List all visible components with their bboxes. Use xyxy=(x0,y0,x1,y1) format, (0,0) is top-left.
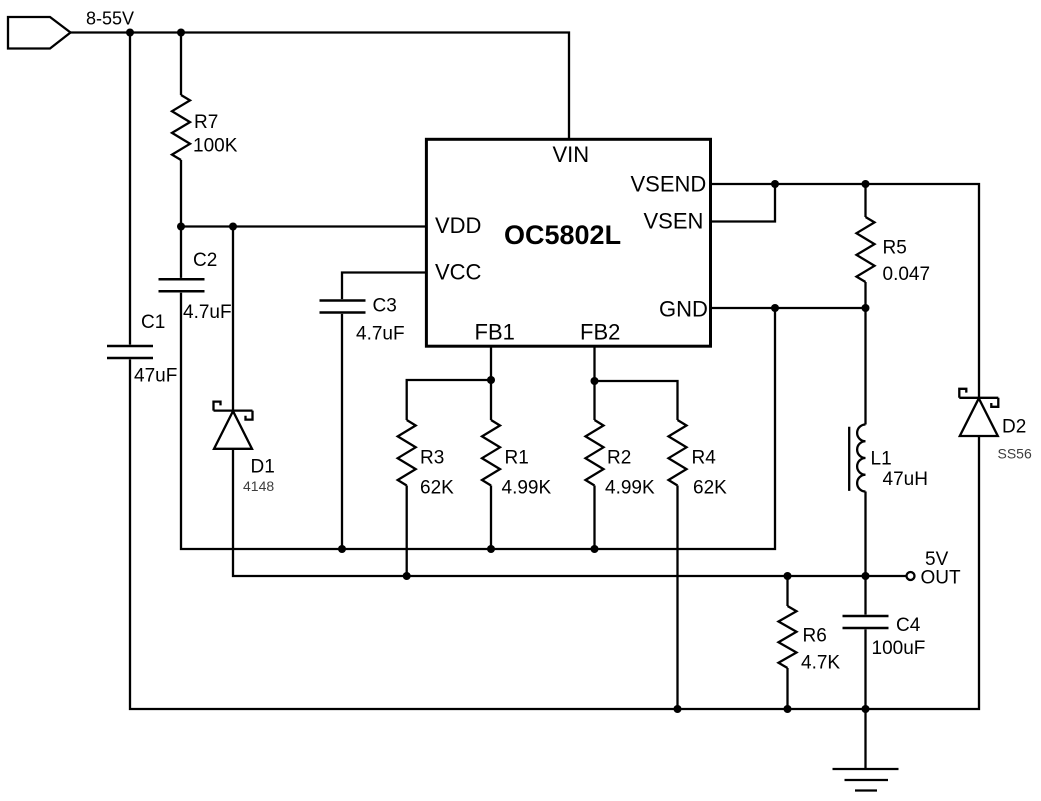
wire GND pin xyxy=(709,307,866,309)
input connector J1 xyxy=(8,17,71,49)
svg-text:47uH: 47uH xyxy=(883,469,928,490)
svg-text:0.047: 0.047 xyxy=(883,264,931,285)
svg-text:OUT: OUT xyxy=(921,568,962,589)
ground xyxy=(833,769,899,791)
svg-text:VSEN: VSEN xyxy=(644,209,704,234)
svg-text:62K: 62K xyxy=(420,478,454,499)
svg-text:R4: R4 xyxy=(692,448,717,469)
wire FB2 node to R4 xyxy=(595,381,678,420)
wire C2 to analog-ground bus A xyxy=(181,293,775,549)
wire C3 to bus A xyxy=(341,314,343,549)
zener diode D1 xyxy=(214,402,253,449)
resistor R1 xyxy=(482,420,500,486)
wire to ground xyxy=(864,709,866,769)
svg-text:D1: D1 xyxy=(251,457,275,478)
junction FB2 node xyxy=(591,377,599,385)
junction R6/bus B xyxy=(784,572,792,580)
junction C4/bottom bus xyxy=(862,705,870,713)
junction VDD/C2 xyxy=(177,223,185,231)
wire bus B to R6 xyxy=(786,576,788,606)
junction R2/bus A xyxy=(591,545,599,553)
junction GND/busA drop xyxy=(771,304,779,312)
resistor R4 xyxy=(669,420,687,486)
resistor R6 xyxy=(779,606,797,668)
svg-text:FB1: FB1 xyxy=(475,320,515,345)
capacitor C3 xyxy=(320,301,366,313)
svg-text:VCC: VCC xyxy=(435,260,482,285)
wire C4 to bottom bus xyxy=(864,629,866,709)
junction VDD/D1 xyxy=(229,223,237,231)
svg-text:4.7uF: 4.7uF xyxy=(356,324,405,345)
junction VSEND/R5 xyxy=(862,180,870,188)
resistor R7 xyxy=(172,95,190,160)
svg-text:VIN: VIN xyxy=(553,142,590,167)
svg-text:OC5802L: OC5802L xyxy=(504,220,621,250)
svg-text:4.99K: 4.99K xyxy=(502,478,552,499)
junction at C1 top xyxy=(126,29,134,37)
wire R7 to VDD xyxy=(180,160,182,227)
wire R2 to bus A xyxy=(593,486,595,550)
wire GND node to L1 xyxy=(864,308,866,425)
svg-text:GND: GND xyxy=(659,297,708,322)
svg-text:C4: C4 xyxy=(896,615,921,636)
svg-text:R6: R6 xyxy=(803,626,827,647)
wire VDD to C2 xyxy=(180,227,182,278)
wire VCC to C3 xyxy=(342,273,428,300)
capacitor C2 xyxy=(159,279,205,291)
wire R3 to bus B xyxy=(406,486,408,577)
svg-text:C2: C2 xyxy=(193,250,217,271)
svg-text:62K: 62K xyxy=(693,478,727,499)
capacitor C4 xyxy=(843,616,889,628)
schottky/zener diode D2 xyxy=(959,389,998,436)
junction FB1 node xyxy=(487,376,495,384)
junction L1/C4/bus B xyxy=(862,572,870,580)
svg-text:R2: R2 xyxy=(607,448,631,469)
output terminal 5V OUT xyxy=(907,572,915,580)
junction R6/bottom bus xyxy=(784,705,792,713)
resistor R2 xyxy=(586,420,604,486)
junction VSEN/VSEND xyxy=(771,180,779,188)
svg-text:C1: C1 xyxy=(141,312,165,333)
svg-text:R3: R3 xyxy=(420,448,444,469)
wire VSEND to R5 xyxy=(864,184,866,217)
wire VDD rail xyxy=(181,225,428,227)
svg-text:L1: L1 xyxy=(871,449,892,470)
wire R1 to bus A xyxy=(490,486,492,550)
wire FB1 pin down xyxy=(490,344,492,380)
svg-text:R5: R5 xyxy=(883,238,907,259)
wire R4 to bottom bus xyxy=(676,486,678,710)
svg-text:4.7K: 4.7K xyxy=(801,653,840,674)
svg-text:4148: 4148 xyxy=(243,478,274,494)
wire FB2 pin down xyxy=(593,344,595,381)
resistor R5 xyxy=(857,217,875,282)
svg-text:FB2: FB2 xyxy=(580,320,620,345)
svg-text:D2: D2 xyxy=(1002,417,1026,438)
svg-text:R7: R7 xyxy=(194,112,218,133)
junction R4/bottom bus xyxy=(674,705,682,713)
resistor R3 xyxy=(398,420,416,486)
svg-text:SS56: SS56 xyxy=(998,446,1032,462)
svg-text:VSEND: VSEND xyxy=(631,172,707,197)
svg-text:C3: C3 xyxy=(373,296,397,317)
junction R1/bus A xyxy=(487,545,495,553)
junction at R7 top xyxy=(177,29,185,37)
svg-text:4.7uF: 4.7uF xyxy=(183,302,232,323)
junction R3/bus B xyxy=(403,572,411,580)
svg-text:R1: R1 xyxy=(505,448,529,469)
svg-text:8-55V: 8-55V xyxy=(86,9,134,29)
wire FB1 node to R3 xyxy=(407,380,491,420)
wire R5 to GND rail xyxy=(864,282,866,308)
op-amp / regulator IC U1 OC5802L xyxy=(426,139,710,346)
wire FB1 node to R1 xyxy=(490,380,492,420)
svg-text:VDD: VDD xyxy=(435,213,481,238)
wire L1 to output node xyxy=(864,492,866,577)
wire D1 anode to output bus B xyxy=(233,449,907,576)
wire VSEND to D2 xyxy=(709,184,980,398)
capacitor C1 xyxy=(107,346,153,358)
junction C3/bus A xyxy=(338,545,346,553)
junction GND/L1 xyxy=(862,304,870,312)
wire VDD to D1 cathode xyxy=(232,227,234,411)
wire output node to C4 xyxy=(864,576,866,615)
wire VSEN up to VSEND xyxy=(709,184,776,222)
svg-text:4.99K: 4.99K xyxy=(605,478,655,499)
wire C1 bottom to ground bus / bottom bus to D2 xyxy=(130,359,979,709)
wire 8-55V rail to VIN xyxy=(71,33,570,141)
wire R6 to bottom bus xyxy=(786,668,788,709)
wire FB2 node to R2 xyxy=(593,381,595,420)
inductor L1 xyxy=(849,425,865,492)
svg-text:100K: 100K xyxy=(193,136,238,157)
wire input to C1 xyxy=(129,33,131,345)
wire input to R7 xyxy=(180,33,182,96)
svg-text:47uF: 47uF xyxy=(134,366,177,387)
svg-text:100uF: 100uF xyxy=(872,638,926,659)
